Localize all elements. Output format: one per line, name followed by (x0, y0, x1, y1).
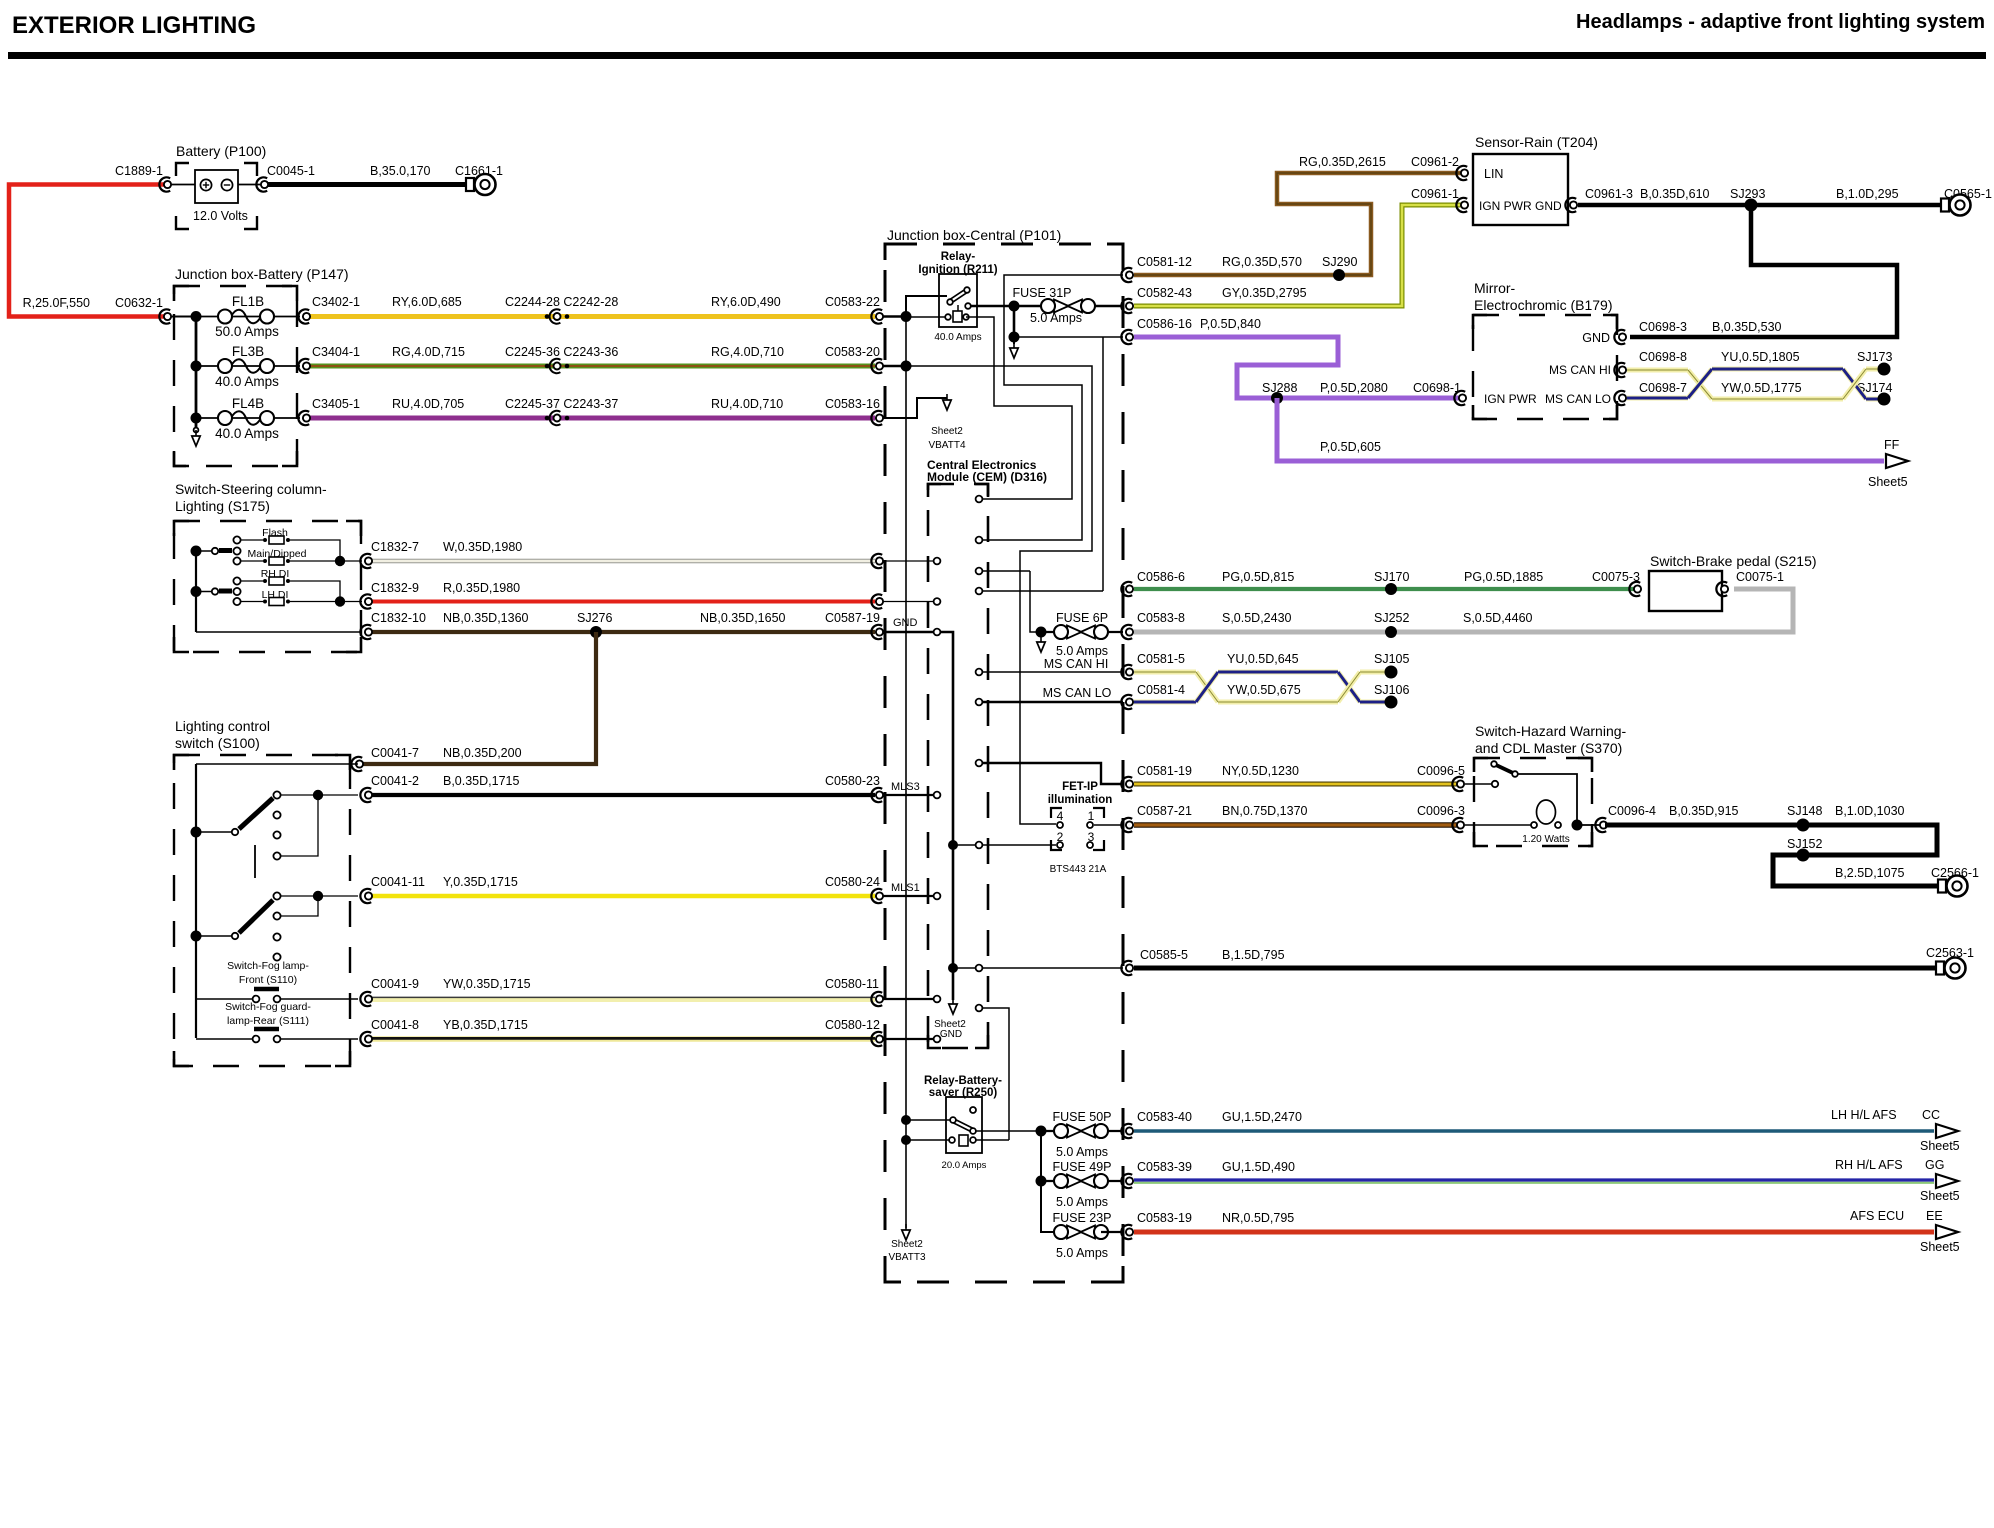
connector C0580-12 (871, 1032, 882, 1046)
svg-text:R,25.0F,550: R,25.0F,550 (23, 296, 90, 310)
svg-text:FUSE 49P: FUSE 49P (1052, 1160, 1111, 1174)
svg-text:YW,0.5D,675: YW,0.5D,675 (1227, 683, 1301, 697)
connector C0041-8 (360, 1032, 371, 1046)
wire VBATT vertical bus (905, 317, 907, 1229)
svg-text:Battery (P100): Battery (P100) (176, 143, 266, 159)
svg-text:S,0.5D,2430: S,0.5D,2430 (1222, 611, 1292, 625)
connector C0698-3 (1614, 330, 1625, 344)
svg-text:NB,0.35D,1650: NB,0.35D,1650 (700, 611, 786, 625)
wire RY,6.0D row (309, 314, 875, 319)
svg-text:RY,6.0D,685: RY,6.0D,685 (392, 295, 462, 309)
svg-text:R,0.35D,1980: R,0.35D,1980 (443, 581, 520, 595)
S370 switch (1465, 783, 1492, 785)
svg-text:RH DI: RH DI (261, 568, 290, 580)
svg-text:C0961-2: C0961-2 (1411, 155, 1459, 169)
wire NB,0.35D row (371, 630, 875, 634)
FUSE 50P (1041, 1130, 1123, 1132)
R250 coil return (976, 1139, 1009, 1141)
wire CEM pin to fuse6P (983, 590, 1103, 592)
connector C0045-1 (256, 177, 267, 191)
svg-text:P,0.5D,605: P,0.5D,605 (1320, 440, 1381, 454)
fusible link FL1B (196, 316, 300, 318)
svg-text:C0586-16: C0586-16 (1137, 317, 1192, 331)
svg-text:C0583-8: C0583-8 (1137, 611, 1185, 625)
svg-text:FF: FF (1884, 438, 1900, 452)
R250 lever (954, 1121, 972, 1130)
FUSE 49P (1041, 1180, 1123, 1182)
junction SJ174 (1878, 393, 1891, 406)
svg-text:C0583-40: C0583-40 (1137, 1110, 1192, 1124)
svg-text:1: 1 (1088, 809, 1095, 823)
svg-text:YU,0.5D,645: YU,0.5D,645 (1227, 652, 1299, 666)
junction SJ105 (1385, 666, 1398, 679)
VBATT tap under fuse31P (1013, 306, 1016, 337)
node RG feed (883, 365, 906, 368)
svg-text:RH H/L AFS: RH H/L AFS (1835, 1158, 1903, 1172)
svg-text:Lighting control: Lighting control (175, 718, 270, 734)
svg-text:C1661-1: C1661-1 (455, 164, 503, 178)
svg-text:C0041-2: C0041-2 (371, 774, 419, 788)
RH DI element (241, 580, 263, 582)
svg-text:SJ290: SJ290 (1322, 255, 1357, 269)
connector C0583-20 (871, 359, 882, 373)
C0587-8 pin line (883, 601, 933, 603)
connector C0583-40 (1121, 1124, 1132, 1138)
svg-text:SJ293: SJ293 (1730, 187, 1765, 201)
connector C0698-1 (1454, 391, 1465, 405)
svg-text:B,0.35D,915: B,0.35D,915 (1669, 804, 1739, 818)
svg-text:YU,0.5D,1805: YU,0.5D,1805 (1721, 350, 1800, 364)
connector C0586-16 (1121, 330, 1132, 344)
S100 bus (196, 763, 358, 765)
svg-text:Relay-Battery-: Relay-Battery- (924, 1075, 1002, 1087)
wire RG,4.0D row (309, 364, 875, 369)
svg-text:AFS ECU: AFS ECU (1850, 1209, 1904, 1223)
wire Y,0.35D row (371, 894, 875, 899)
fuse chain vertical (1041, 1131, 1061, 1232)
svg-text:B,0.35D,530: B,0.35D,530 (1712, 320, 1782, 334)
svg-text:FUSE 23P: FUSE 23P (1052, 1211, 1111, 1225)
S100 rotary switch 2 (196, 935, 231, 937)
svg-text:Sheet2: Sheet2 (891, 1239, 923, 1250)
svg-text:GU,1.5D,490: GU,1.5D,490 (1222, 1160, 1295, 1174)
svg-text:RY,6.0D,490: RY,6.0D,490 (711, 295, 781, 309)
sheet arrow FF (1886, 454, 1908, 468)
svg-text:C3405-1: C3405-1 (312, 397, 360, 411)
svg-text:C0580-12: C0580-12 (825, 1018, 880, 1032)
svg-text:C0698-8: C0698-8 (1639, 350, 1687, 364)
svg-text:SJ105: SJ105 (1374, 652, 1409, 666)
svg-text:switch (S100): switch (S100) (175, 735, 260, 751)
junction SJ173 (1878, 363, 1891, 376)
svg-text:P,0.5D,840: P,0.5D,840 (1200, 317, 1261, 331)
svg-text:YW,0.35D,1715: YW,0.35D,1715 (443, 977, 531, 991)
svg-text:Y,0.35D,1715: Y,0.35D,1715 (443, 875, 518, 889)
svg-text:5.0 Amps: 5.0 Amps (1056, 1246, 1108, 1260)
svg-text:C0961-1: C0961-1 (1411, 187, 1459, 201)
svg-text:EXTERIOR LIGHTING: EXTERIOR LIGHTING (12, 12, 256, 39)
ring terminal C1661-1 (466, 178, 474, 191)
svg-text:NB,0.35D,1360: NB,0.35D,1360 (443, 611, 529, 625)
svg-text:SJ152: SJ152 (1787, 837, 1822, 851)
svg-text:C0583-39: C0583-39 (1137, 1160, 1192, 1174)
svg-text:Switch-Fog lamp-: Switch-Fog lamp- (227, 960, 309, 972)
FET pin1 to C0587-21 (1094, 824, 1123, 826)
svg-text:B,35.0,170: B,35.0,170 (370, 164, 431, 178)
S100 rotary switch 1 (196, 831, 231, 833)
svg-text:and CDL Master (S370): and CDL Master (S370) (1475, 740, 1622, 756)
wire NB branch to S100 (362, 632, 596, 764)
svg-text:Flash: Flash (262, 527, 288, 539)
connector C0075-1 (1716, 582, 1727, 596)
connector C0587-19 (871, 625, 882, 639)
Main/Dipped element (241, 560, 263, 562)
wire GU teal (1134, 1129, 1934, 1132)
svg-text:Mirror-: Mirror- (1474, 280, 1516, 296)
svg-text:C0581-4: C0581-4 (1137, 683, 1185, 697)
connector C0041-9 (360, 992, 371, 1006)
connector C0583-22 (871, 309, 882, 323)
S175 switch lever upper (196, 550, 211, 552)
svg-text:LH DI: LH DI (262, 589, 289, 601)
wire B gnd loop (1630, 205, 1897, 337)
svg-text:FET-IP: FET-IP (1062, 781, 1098, 793)
svg-text:GY,0.35D,2795: GY,0.35D,2795 (1222, 286, 1307, 300)
svg-text:Headlamps - adaptive front lig: Headlamps - adaptive front lighting syst… (1576, 11, 1985, 33)
svg-text:C0583-19: C0583-19 (1137, 1211, 1192, 1225)
Flash element (241, 539, 263, 541)
svg-text:IGN PWR: IGN PWR (1484, 392, 1537, 406)
svg-text:C1832-9: C1832-9 (371, 581, 419, 595)
wire PG green (1134, 587, 1635, 591)
svg-text:C0581-19: C0581-19 (1137, 764, 1192, 778)
svg-text:C2245-37 C2243-37: C2245-37 C2243-37 (505, 397, 618, 411)
wire GU navy (1134, 1182, 1934, 1184)
svg-text:C2244-28 C2242-28: C2244-28 C2242-28 (505, 295, 618, 309)
svg-text:B,0.35D,1715: B,0.35D,1715 (443, 774, 519, 788)
svg-text:C0041-11: C0041-11 (371, 875, 425, 889)
fusible link FL3B (196, 365, 300, 367)
svg-text:Sheet2: Sheet2 (931, 426, 963, 437)
svg-text:PG,0.5D,1885: PG,0.5D,1885 (1464, 570, 1543, 584)
svg-text:Sheet5: Sheet5 (1920, 1189, 1960, 1203)
connector C0586-6 (1121, 582, 1132, 596)
svg-text:SJ148: SJ148 (1787, 804, 1822, 818)
svg-text:5.0 Amps: 5.0 Amps (1056, 1145, 1108, 1159)
wire R battery feed (9, 185, 166, 317)
sheet arrow EE (1936, 1225, 1958, 1239)
twisted pair mirror CAN (1627, 368, 1688, 373)
svg-text:RG,0.35D,570: RG,0.35D,570 (1222, 255, 1302, 269)
connector C0961-2 (1456, 166, 1467, 180)
wire B,0.35D,610 (1578, 203, 1751, 208)
junction SJ276 (590, 626, 602, 638)
connector C0041-2 (360, 788, 371, 802)
wire R,0.35D row (371, 600, 875, 604)
wire YW,0.35D row (371, 997, 875, 1002)
svg-text:C1889-1: C1889-1 (115, 164, 163, 178)
connector C0632-1 (159, 309, 170, 323)
wire C0586-16 internal feed (1102, 337, 1104, 591)
svg-text:GND: GND (940, 1029, 962, 1040)
sheet arrow GG (1936, 1174, 1958, 1188)
LH DI element (241, 601, 263, 603)
junction SJ293 (1745, 199, 1758, 212)
svg-text:RU,4.0D,710: RU,4.0D,710 (711, 397, 783, 411)
svg-text:SJ288: SJ288 (1262, 381, 1297, 395)
connector C0698-8 (1614, 363, 1625, 377)
svg-text:BN,0.75D,1370: BN,0.75D,1370 (1222, 804, 1308, 818)
svg-text:C1832-7: C1832-7 (371, 540, 419, 554)
wire NR red (1134, 1230, 1934, 1235)
svg-text:YW,0.5D,1775: YW,0.5D,1775 (1721, 381, 1802, 395)
R211 lever (951, 291, 966, 301)
svg-text:SJ173: SJ173 (1857, 350, 1892, 364)
connector C0581-4 (1121, 695, 1132, 709)
connector C0583-39 (1121, 1174, 1132, 1188)
wire B,1.0D,295 (1751, 203, 1942, 208)
svg-text:B,1.5D,795: B,1.5D,795 (1222, 948, 1285, 962)
CEM pin to R250 line (983, 1008, 1009, 1140)
svg-text:B,1.0D,295: B,1.0D,295 (1836, 187, 1899, 201)
wire B,0.35D,915 + loop (1605, 825, 1944, 886)
svg-text:12.0 Volts: 12.0 Volts (193, 209, 248, 223)
wire P,0.5D,605 purple (1277, 398, 1884, 461)
R250 feeds (901, 1115, 911, 1125)
svg-text:B,2.5D,1075: B,2.5D,1075 (1835, 866, 1905, 880)
svg-text:VBATT3: VBATT3 (888, 1252, 925, 1263)
connector C0096-4 (1595, 818, 1606, 832)
connector C1832-10 (360, 625, 371, 639)
junction SJ148 (1797, 819, 1810, 832)
wire B,0.35D row (371, 793, 875, 797)
svg-text:Relay-: Relay- (941, 251, 976, 263)
wire P,0.5D,840 purple (1134, 337, 1460, 398)
connector C0096-5 (1452, 777, 1463, 791)
svg-text:C0096-4: C0096-4 (1608, 804, 1656, 818)
svg-text:C0041-7: C0041-7 (371, 746, 419, 760)
svg-text:C0698-1: C0698-1 (1413, 381, 1461, 395)
connector C0698-7 (1614, 391, 1625, 405)
connector C0580-11 (871, 992, 882, 1006)
S175 bus (195, 551, 197, 632)
svg-text:MS CAN HI: MS CAN HI (1044, 657, 1109, 671)
R250 coil (959, 1135, 968, 1146)
connector C3402-1 (298, 309, 309, 323)
S370 lamp (1465, 824, 1532, 826)
connector C1889-1 (159, 177, 170, 191)
connector C1832-9 (360, 594, 371, 608)
svg-text:EE: EE (1926, 1209, 1943, 1223)
svg-text:Electrochromic (B179): Electrochromic (B179) (1474, 297, 1613, 313)
svg-text:PG,0.5D,815: PG,0.5D,815 (1222, 570, 1294, 584)
svg-text:W,0.35D,1980: W,0.35D,1980 (443, 540, 522, 554)
svg-text:NB,0.35D,200: NB,0.35D,200 (443, 746, 522, 760)
inline connector C2244-28/C2242-28 (545, 314, 550, 319)
svg-text:C0698-3: C0698-3 (1639, 320, 1687, 334)
svg-text:Sheet5: Sheet5 (1920, 1240, 1960, 1254)
svg-text:MS CAN LO: MS CAN LO (1043, 686, 1112, 700)
svg-text:C0583-22: C0583-22 (825, 295, 880, 309)
C0580-11 pin line (883, 998, 933, 1000)
svg-text:LIN: LIN (1484, 167, 1503, 181)
FUSE 23P (1067, 1226, 1082, 1239)
MLS1 pin line (883, 895, 933, 897)
svg-text:B,1.0D,1030: B,1.0D,1030 (1835, 804, 1905, 818)
connector C0583-8 (1121, 625, 1132, 639)
wire BN (1134, 822, 1460, 828)
svg-text:FL1B: FL1B (232, 294, 264, 309)
svg-text:Sensor-Rain (T204): Sensor-Rain (T204) (1475, 134, 1598, 150)
svg-text:P,0.5D,2080: P,0.5D,2080 (1320, 381, 1388, 395)
svg-text:GU,1.5D,2470: GU,1.5D,2470 (1222, 1110, 1302, 1124)
svg-text:C0583-20: C0583-20 (825, 345, 880, 359)
connector C0587-8 (871, 594, 882, 608)
svg-text:C0580-11: C0580-11 (825, 977, 879, 991)
wire B,35.0,170 (268, 182, 468, 187)
svg-text:C0585-5: C0585-5 (1140, 948, 1188, 962)
wire S gray (1134, 589, 1793, 632)
connector C0581-12 (1121, 268, 1132, 282)
wire W,0.35D row (371, 559, 875, 563)
S175 contacts upper (233, 536, 240, 543)
wire RG,0.35D brown to sensor (1134, 173, 1462, 275)
connector C0961-3 (1565, 198, 1576, 212)
svg-text:RG,4.0D,715: RG,4.0D,715 (392, 345, 465, 359)
svg-text:C0587-21: C0587-21 (1137, 804, 1192, 818)
R250 output to fuses (976, 1130, 1041, 1132)
ring terminal C2563-1 (1936, 962, 1944, 975)
wire CEM to C0581-19 (983, 763, 1123, 784)
svg-text:FUSE 6P: FUSE 6P (1056, 611, 1108, 625)
wire R211 coil to CEM (966, 317, 1072, 499)
connector C0587-6 (871, 554, 882, 568)
svg-text:GND: GND (1582, 331, 1610, 345)
svg-text:FUSE 31P: FUSE 31P (1012, 286, 1071, 300)
connector C1832-7 (360, 554, 371, 568)
junction SJ106 (1385, 696, 1398, 709)
svg-text:Junction box-Battery (P147): Junction box-Battery (P147) (175, 266, 349, 282)
svg-text:YB,0.35D,1715: YB,0.35D,1715 (443, 1018, 528, 1032)
svg-text:5.0 Amps: 5.0 Amps (1056, 644, 1108, 658)
svg-text:Front (S110): Front (S110) (239, 974, 297, 986)
connector C0580-23 (871, 788, 882, 802)
svg-text:FL4B: FL4B (232, 396, 264, 411)
connector C3404-1 (298, 359, 309, 373)
connector C0582-43 (1121, 299, 1132, 313)
wire relay to fuse31P (971, 305, 1014, 308)
svg-text:5.0 Amps: 5.0 Amps (1030, 311, 1082, 325)
svg-text:FUSE 50P: FUSE 50P (1052, 1110, 1111, 1124)
svg-text:CC: CC (1922, 1108, 1940, 1122)
svg-text:C3402-1: C3402-1 (312, 295, 360, 309)
svg-text:C0580-23: C0580-23 (825, 774, 880, 788)
svg-text:MS CAN HI: MS CAN HI (1549, 363, 1611, 377)
svg-text:50.0 Amps: 50.0 Amps (215, 324, 279, 339)
wire GY to sensor (1134, 205, 1462, 306)
P147 bus (171, 316, 196, 318)
svg-text:SJ276: SJ276 (577, 611, 612, 625)
ring terminal C2566-1 (1938, 880, 1946, 893)
header rule (8, 52, 1986, 59)
svg-text:C0075-1: C0075-1 (1736, 570, 1784, 584)
svg-text:40.0 Amps: 40.0 Amps (215, 374, 279, 389)
svg-text:4: 4 (1057, 809, 1064, 823)
svg-text:Sheet5: Sheet5 (1920, 1139, 1960, 1153)
connector C0581-19 (1121, 777, 1132, 791)
svg-text:Switch-Brake pedal (S215): Switch-Brake pedal (S215) (1650, 553, 1817, 569)
svg-text:C0586-6: C0586-6 (1137, 570, 1185, 584)
svg-text:C0580-24: C0580-24 (825, 875, 880, 889)
wire B,1.5D,795 (1134, 966, 1936, 971)
connector C0041-7 (351, 757, 362, 771)
svg-text:S,0.5D,4460: S,0.5D,4460 (1463, 611, 1533, 625)
svg-text:C0041-9: C0041-9 (371, 977, 419, 991)
C0580-12 pin line (883, 1038, 933, 1040)
battery P100 bracket (176, 163, 189, 176)
S175 switch lever lower (196, 591, 211, 593)
svg-text:NY,0.5D,1230: NY,0.5D,1230 (1222, 764, 1299, 778)
twisted pair MS CAN mid (1134, 670, 1196, 675)
svg-text:SJ252: SJ252 (1374, 611, 1409, 625)
svg-text:RG,4.0D,710: RG,4.0D,710 (711, 345, 784, 359)
C0585-5 internal line (953, 967, 1123, 969)
svg-text:MS CAN LO: MS CAN LO (1545, 392, 1611, 406)
battery P100 (195, 170, 238, 203)
svg-text:lamp-Rear (S111): lamp-Rear (S111) (227, 1015, 309, 1027)
MLS3 pin line (883, 794, 933, 796)
svg-text:C0698-7: C0698-7 (1639, 381, 1687, 395)
fusible link FL4B (196, 417, 300, 419)
svg-text:GG: GG (1925, 1158, 1944, 1172)
connector C0583-16 (871, 411, 882, 425)
svg-text:RG,0.35D,2615: RG,0.35D,2615 (1299, 155, 1386, 169)
svg-text:Sheet5: Sheet5 (1868, 475, 1908, 489)
svg-text:LH H/L AFS: LH H/L AFS (1831, 1108, 1897, 1122)
svg-text:Main/Dipped: Main/Dipped (248, 548, 307, 560)
wire NY (1134, 782, 1460, 787)
FUSE 31P (1014, 305, 1123, 308)
sheet arrow CC (1936, 1124, 1958, 1138)
svg-text:VBATT4: VBATT4 (928, 440, 965, 451)
svg-text:20.0 Amps: 20.0 Amps (942, 1160, 987, 1171)
svg-text:FL3B: FL3B (232, 344, 264, 359)
inline connector C2245-36/C2243-36 (545, 364, 550, 369)
svg-text:C3404-1: C3404-1 (312, 345, 360, 359)
connector C0583-19 (1121, 1225, 1132, 1239)
connector C0096-3 (1452, 818, 1463, 832)
C0587-6 pin line (883, 560, 933, 562)
svg-text:IGN PWR GND: IGN PWR GND (1479, 199, 1562, 213)
connector C0041-11 (360, 889, 371, 903)
wire C0581-12 internal feed (983, 275, 1123, 540)
connector C0961-1 (1456, 198, 1467, 212)
connector C0581-5 (1121, 665, 1132, 679)
svg-text:C0582-43: C0582-43 (1137, 286, 1192, 300)
wire YB,0.35D row (371, 1036, 875, 1042)
ring terminal C0565-1 (1941, 199, 1949, 212)
svg-text:C0587-19: C0587-19 (825, 611, 880, 625)
svg-text:SJ106: SJ106 (1374, 683, 1409, 697)
svg-text:illumination: illumination (1048, 794, 1113, 806)
connector C0585-5 (1121, 961, 1132, 975)
svg-text:C0075-3: C0075-3 (1592, 570, 1640, 584)
svg-text:Module (CEM) (D316): Module (CEM) (D316) (927, 470, 1047, 484)
svg-text:C0581-12: C0581-12 (1137, 255, 1192, 269)
svg-text:C2245-36 C2243-36: C2245-36 C2243-36 (505, 345, 618, 359)
svg-text:Switch-Fog guard-: Switch-Fog guard- (225, 1001, 311, 1013)
FUSE 6P (1030, 571, 1041, 632)
